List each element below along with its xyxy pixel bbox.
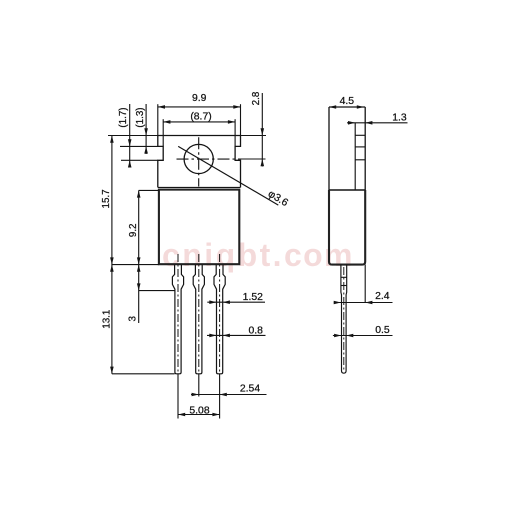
- svg-text:3: 3: [127, 316, 138, 322]
- svg-text:(1.3): (1.3): [135, 107, 146, 127]
- svg-text:cniqbt.com: cniqbt.com: [162, 237, 354, 273]
- svg-text:1.3: 1.3: [392, 112, 407, 123]
- svg-text:15.7: 15.7: [101, 189, 112, 208]
- svg-text:9.9: 9.9: [192, 93, 207, 104]
- svg-text:2.8: 2.8: [251, 91, 262, 105]
- svg-text:9.2: 9.2: [128, 223, 139, 237]
- svg-text:5.08: 5.08: [189, 405, 209, 416]
- svg-text:0.8: 0.8: [248, 325, 263, 336]
- svg-text:(8.7): (8.7): [190, 112, 211, 123]
- svg-text:2.4: 2.4: [375, 291, 390, 302]
- svg-text:0.5: 0.5: [375, 325, 390, 336]
- svg-text:13.1: 13.1: [102, 310, 113, 329]
- svg-text:(1.7): (1.7): [118, 107, 129, 127]
- svg-text:1.52: 1.52: [243, 292, 263, 303]
- svg-text:4.5: 4.5: [340, 96, 355, 107]
- svg-text:2.54: 2.54: [240, 384, 260, 395]
